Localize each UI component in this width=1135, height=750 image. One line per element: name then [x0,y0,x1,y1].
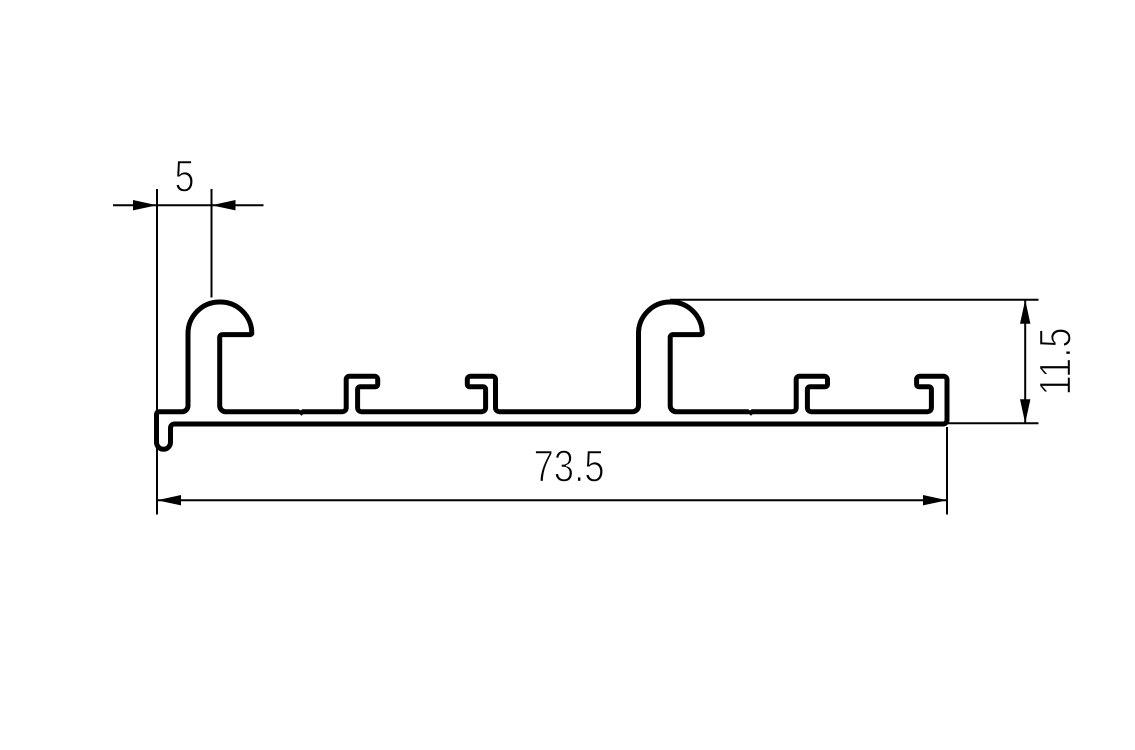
svg-text:5: 5 [175,151,195,202]
svg-text:11.5: 11.5 [1030,328,1081,396]
svg-text:73.5: 73.5 [534,441,605,492]
